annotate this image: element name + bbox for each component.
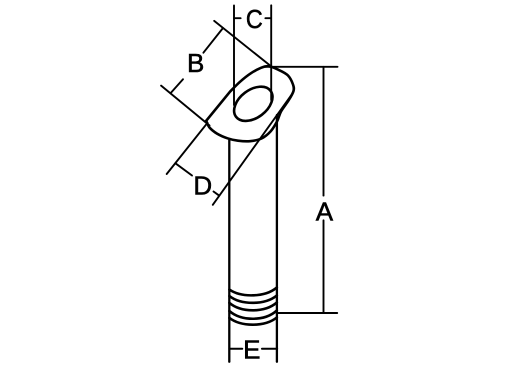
label C xyxy=(246,6,263,34)
dim D line segment 2 xyxy=(214,192,219,196)
svg-text:A: A xyxy=(316,196,334,226)
dim B extension line 2 xyxy=(161,86,209,126)
dim C left extension line xyxy=(233,6,235,106)
svg-text:E: E xyxy=(243,335,260,365)
ring arc 4 xyxy=(229,311,276,319)
ring arc 5 xyxy=(229,318,276,325)
dim E line right segment xyxy=(262,348,277,350)
dim D extension line 1 xyxy=(167,123,208,174)
dim A line lower segment xyxy=(323,220,325,313)
dim B line segment 1 xyxy=(203,28,223,53)
dim B line segment 2 xyxy=(171,79,184,93)
dim A top extension line xyxy=(265,66,338,68)
tube left edge xyxy=(228,140,230,362)
hole ellipse xyxy=(228,80,279,128)
svg-text:D: D xyxy=(193,171,212,201)
dim A line upper segment xyxy=(323,67,325,196)
svg-text:B: B xyxy=(187,48,204,78)
dim C line left segment xyxy=(234,17,241,19)
dim B extension line 1 xyxy=(214,21,272,67)
ring arc 2 xyxy=(229,296,276,303)
ring arc 1 xyxy=(229,288,276,296)
dim C line right segment xyxy=(265,17,271,19)
ring arc 3 xyxy=(229,303,276,311)
dim D extension line 2 xyxy=(213,96,291,205)
dim E line left segment xyxy=(229,348,242,350)
svg-text:C: C xyxy=(246,6,263,34)
tube right edge xyxy=(276,115,278,362)
dim A bottom extension line xyxy=(277,312,337,314)
dim C right extension line xyxy=(270,5,272,100)
dim D line segment 1 xyxy=(175,163,192,175)
flange outline xyxy=(206,66,294,141)
